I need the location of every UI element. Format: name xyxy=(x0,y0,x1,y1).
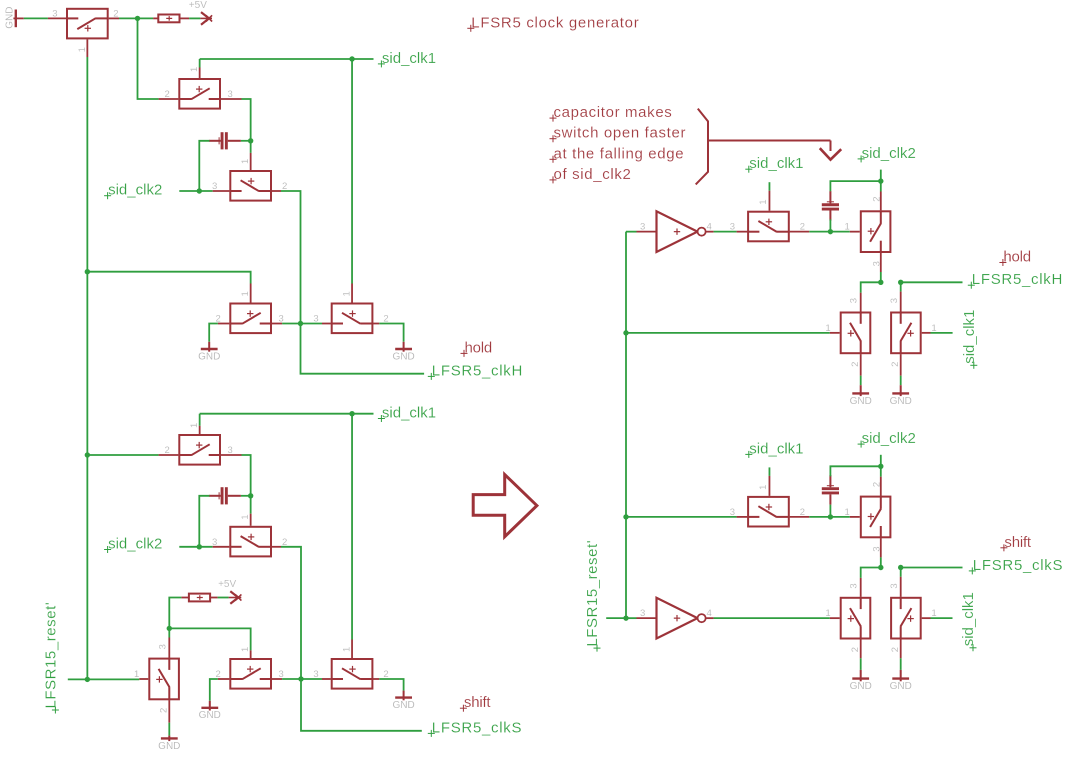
junction node capR2 xyxy=(828,514,833,519)
wire mainR to F2 pin3 xyxy=(626,516,737,518)
junction node sid_clk1-L1 xyxy=(349,56,354,61)
label LFSR5_clkS right xyxy=(969,557,1063,575)
pin S1 pin 3 xyxy=(48,17,66,19)
wire sid_clk1b vertical to SE xyxy=(351,414,353,640)
pin SC pin 2 xyxy=(168,700,170,722)
svg-text:of sid_clk2: of sid_clk2 xyxy=(554,166,632,183)
pin S1 pin 2 xyxy=(109,17,119,19)
analog switch SG2 xyxy=(845,482,891,552)
wire clkS to label xyxy=(901,567,963,569)
junction node clkH-2 xyxy=(898,280,903,285)
svg-text:LFSR15_reset': LFSR15_reset' xyxy=(42,602,59,709)
label hold left xyxy=(461,339,493,357)
svg-text:1: 1 xyxy=(134,669,139,680)
pin S5 pin 1 xyxy=(351,284,353,303)
svg-text:switch open faster: switch open faster xyxy=(554,125,687,142)
pin S3 pin 1 xyxy=(250,153,252,170)
wire cap node down xyxy=(250,141,252,153)
wire clkS to H2 pin3 xyxy=(861,568,881,578)
pin J1 right lead xyxy=(180,17,190,19)
svg-text:1: 1 xyxy=(240,647,251,652)
analog switch SC xyxy=(134,644,179,713)
svg-text:sid_clk2: sid_clk2 xyxy=(108,182,162,199)
pin U2 input xyxy=(637,617,657,619)
svg-text:LFSR5_clkH: LFSR5_clkH xyxy=(432,362,523,379)
pin F1 pin 3 xyxy=(737,231,748,233)
analog switch S4 xyxy=(216,291,284,333)
wire clkH to H1 pin3 xyxy=(861,282,881,292)
svg-text:3: 3 xyxy=(849,583,860,588)
svg-text:sid_clk1: sid_clk1 xyxy=(382,50,436,67)
wire S1 to +5V node xyxy=(119,17,153,19)
pin F2 pin 1 xyxy=(768,476,770,496)
wire U2 out to H2 pin1 xyxy=(714,617,830,619)
pin SE pin 2 xyxy=(373,678,379,680)
pin S3 pin 3 xyxy=(213,190,230,192)
wire F1.2 to node xyxy=(809,231,830,233)
svg-text:1: 1 xyxy=(342,647,353,652)
wire +5V2 node to SD pin1 xyxy=(169,628,250,650)
pin H2 pin 3 xyxy=(860,578,862,597)
pin G2sw pin 3 xyxy=(880,538,882,557)
pin SC pin 3 xyxy=(168,638,170,658)
wire S3.2 down to hold node and LFSR5_clkH xyxy=(281,191,424,374)
svg-text:2: 2 xyxy=(165,445,170,456)
analog switch SB xyxy=(212,515,287,557)
pin S2 pin 2 xyxy=(159,98,179,100)
junction node clkH-1 xyxy=(878,280,883,285)
svg-text:hold: hold xyxy=(465,339,493,356)
svg-text:1: 1 xyxy=(845,507,850,518)
wire G2sw.3 down xyxy=(880,557,882,567)
inverter U2 xyxy=(640,598,712,639)
svg-text:LFSR5 clock generator: LFSR5 clock generator xyxy=(471,14,639,31)
wire capR2 top to sid_clk2 xyxy=(830,466,880,476)
pin J2 right lead xyxy=(210,597,218,599)
wire mainR to H1 pin1 xyxy=(626,332,830,334)
wire sid_clk2 net xyxy=(179,190,212,192)
ground G2 xyxy=(198,342,220,363)
capacitor C4 xyxy=(822,475,839,505)
svg-text:sid_clk1: sid_clk1 xyxy=(961,310,978,364)
label LFSR5_clkS left xyxy=(428,719,522,737)
wire sid_clk1b corner down xyxy=(199,414,201,426)
pin S3 pin 2 xyxy=(272,190,281,192)
analog switch SI1 xyxy=(889,298,937,367)
svg-text:sid_clk1: sid_clk1 xyxy=(749,440,803,457)
annotation text line 1 xyxy=(550,104,673,122)
pin SD pin 2 xyxy=(218,678,229,680)
wire capR1 bottom lead xyxy=(829,219,831,231)
annotation text line 4 xyxy=(550,166,632,184)
svg-text:3: 3 xyxy=(730,507,735,518)
junction node mainR-3 xyxy=(623,615,628,620)
svg-text:3: 3 xyxy=(889,583,900,588)
ground G9 xyxy=(850,670,872,692)
wire G1.3 down xyxy=(880,272,882,282)
annotation text line 2 xyxy=(550,125,687,143)
annotation arrow xyxy=(708,141,841,160)
wire shift node to LFSR5_clkS xyxy=(301,679,422,731)
svg-text:hold: hold xyxy=(1003,249,1031,266)
wire sid_clk2b net xyxy=(179,546,212,548)
label sid_clk1 right-top-vertical xyxy=(961,310,978,369)
pin H2 pin 1 xyxy=(830,617,840,619)
label sid_clk1 right-bottom xyxy=(745,440,803,458)
pin G1 pin 2 xyxy=(880,192,882,211)
wire SB.2 down to shift node xyxy=(281,547,301,679)
pin SA pin 3 xyxy=(221,454,242,456)
analog switch SF2 xyxy=(730,485,805,527)
svg-text:1: 1 xyxy=(845,222,850,233)
pin SB pin 3 xyxy=(213,546,230,548)
pin G2sw pin 2 xyxy=(880,477,882,496)
label LFSR5_clkH right xyxy=(968,271,1063,289)
pin J2 left lead xyxy=(181,597,189,599)
label sid_clk2 left-top xyxy=(104,182,162,200)
label sid_clk2 right-top xyxy=(858,145,916,163)
wire clkH-2 to I1 pin3 xyxy=(900,282,902,291)
analog switch SH2 xyxy=(825,583,870,652)
analog switch S2 xyxy=(165,67,233,109)
pin SB pin 1 xyxy=(250,514,252,526)
svg-text:3: 3 xyxy=(52,8,57,19)
junction node clkS-2 xyxy=(898,565,903,570)
wire sid_clk1 vertical to S5 xyxy=(351,59,353,284)
pin I1 pin 3 xyxy=(900,292,902,312)
junction node cap2 xyxy=(248,493,253,498)
ground G10 xyxy=(890,670,912,692)
label title xyxy=(467,14,639,32)
wire mainL to SA pin2 xyxy=(87,454,158,456)
analog switch S1 xyxy=(52,8,118,52)
pin S2 pin 3 xyxy=(221,98,242,100)
svg-text:3: 3 xyxy=(849,298,860,303)
annotation bracket xyxy=(696,109,708,185)
pin S4 pin 2 xyxy=(218,323,229,325)
supply +5V arrow 1 xyxy=(189,0,212,25)
junction node mainL-1 xyxy=(85,269,90,274)
analog switch SI2 xyxy=(889,583,937,652)
wire to S4 pin1 xyxy=(87,272,250,284)
pin SD pin 1 xyxy=(250,650,252,658)
svg-text:1: 1 xyxy=(77,47,88,52)
ground G3 xyxy=(392,342,414,363)
svg-text:1: 1 xyxy=(189,423,200,428)
pin S4 pin 3 xyxy=(272,323,282,325)
svg-text:shift: shift xyxy=(1004,534,1032,551)
junction node cap1 xyxy=(248,138,253,143)
wire J2 left to +5V2 node xyxy=(169,598,181,638)
wire S4.2 to GND xyxy=(209,324,218,342)
wire I2.2 to GND xyxy=(900,658,902,670)
wire sid_clk2RB vertical xyxy=(880,455,882,477)
svg-text:1: 1 xyxy=(758,199,769,204)
svg-text:LFSR5_clkH: LFSR5_clkH xyxy=(972,271,1063,288)
svg-text:GND: GND xyxy=(198,351,220,362)
pin U2 output xyxy=(706,617,714,619)
wire cap2 right lead xyxy=(241,495,251,497)
wire I1.2 to GND xyxy=(900,376,902,386)
pin J1 left lead xyxy=(153,17,158,19)
pin SC pin 1 xyxy=(139,678,148,680)
wire I2.1 to sid_clk1 label xyxy=(931,617,953,619)
svg-text:1: 1 xyxy=(825,323,830,334)
annotation text line 3 xyxy=(550,145,685,163)
pin H1 pin 1 xyxy=(830,332,840,334)
capacitor C1 xyxy=(209,132,241,149)
junction node sid_clk2-RT xyxy=(878,178,883,183)
pin F2 pin 3 xyxy=(737,516,748,518)
pin G1 pin 1 xyxy=(850,231,860,233)
svg-text:sid_clk1: sid_clk1 xyxy=(382,405,436,422)
svg-text:2: 2 xyxy=(890,362,901,367)
svg-text:1: 1 xyxy=(342,291,353,296)
analog switch SA xyxy=(165,423,233,465)
pin S4 pin 1 xyxy=(250,284,252,303)
supply +5V arrow 2 xyxy=(218,579,241,604)
analog switch SG1 xyxy=(845,197,891,267)
svg-text:sid_clk2: sid_clk2 xyxy=(862,145,916,162)
analog switch SD xyxy=(216,647,284,689)
wire SE.2 to GND xyxy=(379,679,403,691)
svg-text:GND: GND xyxy=(890,396,912,407)
svg-text:GND: GND xyxy=(392,351,414,362)
wire mainR corner to U2 xyxy=(626,617,637,619)
svg-text:shift: shift xyxy=(464,694,492,711)
svg-text:2: 2 xyxy=(890,647,901,652)
junction node capR1 xyxy=(828,229,833,234)
svg-text:2: 2 xyxy=(850,647,861,652)
junction node clkS-1 xyxy=(878,565,883,570)
pin U1 output xyxy=(706,231,714,233)
junction node shift-L xyxy=(298,676,303,681)
svg-text:+5V: +5V xyxy=(218,579,236,590)
wire J1 to arrow xyxy=(189,17,200,19)
capacitor C3 xyxy=(822,191,839,221)
svg-text:GND: GND xyxy=(850,681,872,692)
wire sid_clk1RT to F1 pin1 xyxy=(768,182,770,191)
wire sid_clk1RB to F2 pin1 xyxy=(768,467,770,476)
junction node mainR-1 xyxy=(623,330,628,335)
svg-text:3: 3 xyxy=(313,669,318,680)
analog switch SF1 xyxy=(730,199,805,241)
wire cap2 left lead to sid_clk2 xyxy=(199,496,209,547)
pin I2 pin 2 xyxy=(900,640,902,659)
svg-text:at the falling edge: at the falling edge xyxy=(554,145,685,162)
junction node +5V-2 xyxy=(167,626,172,631)
svg-text:LFSR5_clkS: LFSR5_clkS xyxy=(432,719,522,736)
wire SC.2 to GND xyxy=(168,723,170,736)
wire reset net left xyxy=(68,678,140,680)
pin SE pin 1 xyxy=(351,640,353,659)
svg-text:LFSR15_reset': LFSR15_reset' xyxy=(584,540,601,647)
jumper J2 xyxy=(189,594,210,602)
wire clkH to label xyxy=(901,281,963,283)
pin SB pin 2 xyxy=(272,546,281,548)
wire clkS-2 to I2 pin3 xyxy=(900,568,902,577)
svg-text:GND: GND xyxy=(5,7,16,29)
label shift right xyxy=(1000,534,1032,552)
wire H2.2 to GND xyxy=(860,658,862,670)
pin F1 pin 1 xyxy=(768,191,770,211)
pin G2sw pin 1 xyxy=(850,516,860,518)
junction node mainL-3 xyxy=(85,677,90,682)
pin G1 pin 3 xyxy=(880,253,882,272)
pin SA pin 2 xyxy=(159,454,179,456)
wire U1 out to F1.3 xyxy=(714,231,737,233)
svg-text:GND: GND xyxy=(890,681,912,692)
pin S2 pin 1 xyxy=(199,68,201,79)
label sid_clk1 right-bottom-vertical xyxy=(960,592,977,651)
svg-text:sid_clk2: sid_clk2 xyxy=(108,536,162,553)
svg-text:3: 3 xyxy=(889,298,900,303)
svg-text:GND: GND xyxy=(199,710,221,721)
pin H1 pin 2 xyxy=(860,354,862,376)
wire S2.3 to cap node xyxy=(242,99,251,141)
wire node to G2sw pin1 xyxy=(830,516,849,518)
pin SA pin 1 xyxy=(199,426,201,434)
wire sid_clk1 net top-left xyxy=(200,58,374,60)
junction node mainR-2 xyxy=(623,514,628,519)
pin F1 pin 2 xyxy=(790,231,810,233)
pin H1 pin 3 xyxy=(860,293,862,312)
pin SE pin 3 xyxy=(322,678,331,680)
pin SD pin 3 xyxy=(272,678,282,680)
pin S5 pin 3 xyxy=(322,323,331,325)
wire SD.2 to GND xyxy=(210,679,218,701)
svg-text:2: 2 xyxy=(165,89,170,100)
pin U1 input xyxy=(637,231,657,233)
wire SD.3 to node xyxy=(282,678,301,680)
wire F2.2 to node xyxy=(809,516,830,518)
label sid_clk1 left-top xyxy=(378,50,436,68)
svg-text:GND: GND xyxy=(850,396,872,407)
svg-text:2: 2 xyxy=(850,362,861,367)
big arrow symbol xyxy=(473,475,537,537)
svg-text:+5V: +5V xyxy=(189,0,207,11)
pin I2 pin 3 xyxy=(900,577,902,597)
svg-text:1: 1 xyxy=(825,608,830,619)
label sid_clk2 left-bottom xyxy=(104,536,162,554)
wire capR1 top to sid_clk2 xyxy=(830,181,880,191)
svg-text:GND: GND xyxy=(158,741,180,752)
label LFSR5_clkH left xyxy=(428,362,523,380)
wire capR2 bottom lead xyxy=(829,505,831,517)
ground GND symbol top-left xyxy=(5,7,24,29)
wire SA.3 to cap node xyxy=(242,455,251,496)
label sid_clk2 right-bottom xyxy=(858,430,916,448)
pin F2 pin 2 xyxy=(790,516,810,518)
ground G5 xyxy=(199,701,221,721)
junction node sid_clk2-L2 xyxy=(197,544,202,549)
svg-text:sid_clk2: sid_clk2 xyxy=(862,430,916,447)
svg-text:1: 1 xyxy=(240,291,251,296)
wire reset net right xyxy=(606,617,626,619)
junction node sid_clk2-L1 xyxy=(197,188,202,193)
analog switch S5 xyxy=(313,291,388,333)
junction node sid_clk2-RB xyxy=(878,464,883,469)
wire S5.2 to GND xyxy=(379,324,403,342)
wire J2 to arrow2 xyxy=(218,597,229,599)
wire main right vertical xyxy=(625,232,627,619)
wire H1.2 to GND xyxy=(860,376,862,386)
junction node hold-L xyxy=(298,321,303,326)
wire node to SE.3 xyxy=(301,678,322,680)
svg-text:1: 1 xyxy=(240,159,251,164)
label sid_clk1 right-top xyxy=(745,155,803,173)
svg-text:capacitor makes: capacitor makes xyxy=(554,104,673,121)
label LFSR15_reset' left xyxy=(42,602,59,714)
label sid_clk1 left-bottom xyxy=(378,405,436,423)
svg-text:GND: GND xyxy=(392,700,414,711)
wire +5V node down to S2 pin2 xyxy=(138,18,159,99)
pin S1 pin 1 xyxy=(86,39,88,57)
capacitor C2 xyxy=(209,487,241,504)
svg-text:1: 1 xyxy=(189,67,200,72)
ground G8 xyxy=(890,385,912,407)
wire GND to S1 pin3 xyxy=(24,17,48,19)
pin H2 pin 2 xyxy=(860,640,862,659)
wire node to G1 pin1 xyxy=(830,231,849,233)
pin S5 pin 2 xyxy=(373,323,379,325)
wire cap2 node down xyxy=(250,496,252,514)
ground G4 xyxy=(158,736,180,752)
pin I1 pin 1 xyxy=(922,332,931,334)
jumper J1 xyxy=(158,15,179,23)
svg-text:sid_clk1: sid_clk1 xyxy=(960,592,977,646)
label LFSR15_reset' right xyxy=(584,540,601,652)
analog switch SE xyxy=(313,647,388,689)
svg-text:3: 3 xyxy=(730,222,735,233)
wire cap1 left lead to sid_clk2 xyxy=(199,141,209,191)
svg-text:1: 1 xyxy=(240,515,251,520)
svg-text:1: 1 xyxy=(758,485,769,490)
pin I1 pin 2 xyxy=(900,354,902,376)
wire sid_clk1 corner down xyxy=(199,59,201,68)
wire main vertical left xyxy=(86,57,88,679)
junction node sid_clk1-L2 xyxy=(349,411,354,416)
label hold right xyxy=(999,249,1031,267)
svg-text:sid_clk1: sid_clk1 xyxy=(749,155,803,172)
svg-text:3: 3 xyxy=(157,644,168,649)
ground G6 xyxy=(392,691,414,711)
wire sid_clk2RT vertical xyxy=(880,170,882,192)
junction node +5V-1 xyxy=(135,16,140,21)
wire S4.3 to node xyxy=(282,323,300,325)
wire sid_clk1 net bottom-left xyxy=(200,413,374,415)
wire main right vertical top corner xyxy=(626,231,637,233)
junction node mainL-2 xyxy=(85,452,90,457)
svg-text:LFSR5_clkS: LFSR5_clkS xyxy=(973,557,1063,574)
svg-text:2: 2 xyxy=(159,708,170,713)
wire node to S5.3 xyxy=(301,323,323,325)
inverter U1 xyxy=(640,211,712,252)
label shift left xyxy=(460,694,492,712)
analog switch S3 xyxy=(212,159,287,201)
pin I2 pin 1 xyxy=(922,617,931,619)
ground G7 xyxy=(850,385,872,407)
svg-text:3: 3 xyxy=(313,314,318,325)
analog switch SH1 xyxy=(825,298,870,367)
wire cap1 right lead xyxy=(241,140,251,142)
wire I1.1 to sid_clk1 label xyxy=(931,332,953,334)
